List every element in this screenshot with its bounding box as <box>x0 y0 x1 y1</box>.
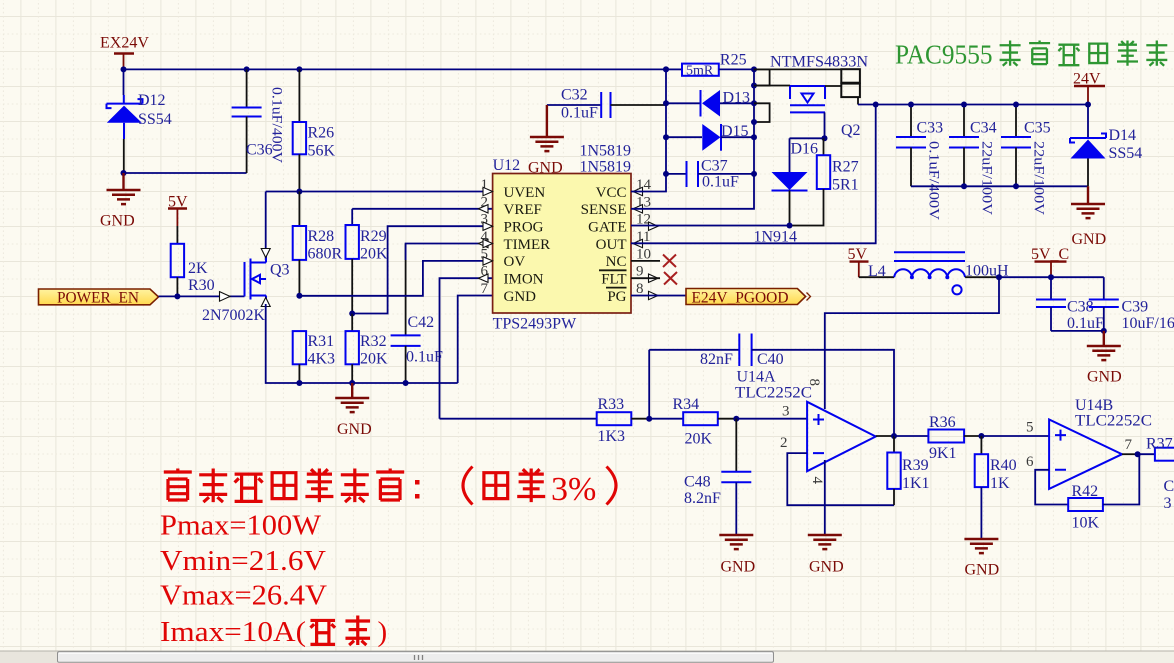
svg-text:C4: C4 <box>1164 478 1174 495</box>
svg-text:C32: C32 <box>561 87 588 104</box>
power port 5V_C <box>1031 246 1069 277</box>
node R25 right <box>751 66 757 72</box>
svg-text:10: 10 <box>636 246 651 262</box>
capacitor C38 <box>1036 277 1104 332</box>
svg-text:7: 7 <box>1125 437 1133 453</box>
svg-text:GND: GND <box>337 421 372 438</box>
svg-text:2: 2 <box>780 435 788 451</box>
svg-text:Q3: Q3 <box>270 262 290 279</box>
svg-text:4: 4 <box>809 477 825 485</box>
ground under C48 <box>719 535 755 576</box>
wire 5V_C supply to op-amp pin8 <box>825 277 999 409</box>
node POWER_EN/R30 <box>174 293 180 299</box>
svg-text:R33: R33 <box>598 396 625 413</box>
svg-text:3%: 3% <box>551 471 596 508</box>
svg-text:L4: L4 <box>868 263 886 280</box>
resistor R34 20K <box>673 396 737 448</box>
svg-text:C39: C39 <box>1122 299 1149 316</box>
node bus-C36 <box>244 66 250 72</box>
svg-text:20K: 20K <box>685 431 713 448</box>
svg-text:GND: GND <box>504 289 537 305</box>
labels 1N5819 D13 D15 values <box>580 143 632 176</box>
svg-text:2K: 2K <box>188 260 208 277</box>
node D15 left <box>663 134 669 140</box>
capacitor C37 <box>666 158 754 191</box>
svg-text:0.1uF: 0.1uF <box>1067 315 1104 332</box>
svg-text:D13: D13 <box>723 90 751 107</box>
port POWER_EN <box>39 289 159 307</box>
power port EX24V <box>100 35 149 70</box>
node C34 top <box>961 102 967 108</box>
wire 24V bus <box>124 68 667 70</box>
wire PROG pin3 <box>352 226 492 313</box>
svg-text:NTMFS4833N: NTMFS4833N <box>770 54 868 71</box>
port E24V_PGOOD <box>686 289 811 307</box>
svg-text:IMON: IMON <box>504 272 544 288</box>
wire OUT pin11 to output rail <box>631 105 876 244</box>
svg-text:C48: C48 <box>684 474 711 491</box>
wire R33 node to R34 <box>649 418 683 420</box>
U12 pin direction arrows <box>479 187 659 299</box>
node D15 right <box>751 134 757 140</box>
U12 pin numbers <box>481 177 652 297</box>
svg-text:GND: GND <box>100 213 135 230</box>
svg-text:R32: R32 <box>360 333 387 350</box>
wire PG pin8 <box>631 295 686 297</box>
svg-text:680R: 680R <box>308 246 343 263</box>
wire GND pin7 <box>458 296 493 384</box>
node C34 bottom <box>961 183 967 189</box>
svg-text:VREF: VREF <box>504 202 542 218</box>
svg-text:22uF/100V: 22uF/100V <box>979 141 995 215</box>
diode D15 1N5819 <box>666 123 754 151</box>
svg-text:C40: C40 <box>757 351 784 368</box>
capacitor C39 <box>1089 277 1174 332</box>
wire U14A output <box>876 435 894 437</box>
node output U14A <box>891 433 897 439</box>
resistor R27 5R1 <box>790 138 859 225</box>
node R36/R40/pin5 <box>978 433 984 439</box>
node C35 top <box>1013 102 1019 108</box>
green note text PAC9555 <box>895 40 1174 70</box>
resistor R42 10K <box>1068 454 1139 531</box>
wire kelvin jog top <box>754 69 770 85</box>
ground under D12 <box>100 173 141 230</box>
svg-text:TIMER: TIMER <box>504 237 551 253</box>
inductor L4 100uH <box>859 252 1009 294</box>
capacitor C42 <box>391 244 443 384</box>
svg-text:5mR: 5mR <box>686 64 714 79</box>
svg-text:GND: GND <box>721 559 756 576</box>
svg-text:TLC2252C: TLC2252C <box>735 385 812 402</box>
svg-text:): ) <box>378 616 388 648</box>
svg-text:0.1uF: 0.1uF <box>702 174 739 191</box>
svg-text:D15: D15 <box>721 123 749 140</box>
node C39 bottom <box>1101 328 1107 334</box>
resistor R36 9K1 <box>894 414 981 462</box>
node kelvin mid <box>751 119 757 125</box>
svg-text:TLC2252C: TLC2252C <box>1075 413 1152 430</box>
svg-text:PG: PG <box>607 289 626 305</box>
wire OV pin5 <box>299 261 492 296</box>
svg-text:SENSE: SENSE <box>581 202 627 218</box>
diode D12 SS54 <box>107 69 172 173</box>
diode D16 1N914 <box>754 138 819 245</box>
svg-text:4K3: 4K3 <box>308 351 336 368</box>
node C33 top <box>908 102 914 108</box>
svg-text:D14: D14 <box>1109 127 1137 144</box>
capacitor C35 <box>1001 105 1051 216</box>
wire VREF pin2 <box>352 208 492 210</box>
ground under pin4 <box>808 535 844 576</box>
node bus-R26 <box>296 66 302 72</box>
svg-text:R42: R42 <box>1072 483 1099 500</box>
node output U14B <box>1135 451 1141 457</box>
diode D14 SS54 <box>1070 105 1142 187</box>
svg-text:8: 8 <box>806 379 822 387</box>
op-amp U14A TLC2252C <box>735 369 876 485</box>
wire L4 to 5V_C <box>999 276 1104 278</box>
capacitor C40 82nF <box>649 334 894 437</box>
wire UVEN to pin1 <box>266 191 493 193</box>
resistor R40 1K <box>975 436 1017 539</box>
wire U14B pin6 feedback loop <box>1035 470 1068 505</box>
resistor R28 680R <box>293 192 343 296</box>
Q2 pad rectangles <box>841 69 860 104</box>
wire SENSE vertical <box>631 69 754 208</box>
svg-text:82nF: 82nF <box>700 351 733 368</box>
svg-text:0.1uF: 0.1uF <box>406 349 443 366</box>
svg-text:PAC9555: PAC9555 <box>895 40 993 70</box>
wire op-amp pin2 feedback <box>787 453 894 505</box>
wire GATE pin12 <box>631 225 790 227</box>
svg-text:0.1uF: 0.1uF <box>561 105 598 122</box>
svg-text:7: 7 <box>481 281 489 297</box>
svg-text:GND: GND <box>809 559 844 576</box>
input arrow on gate wire <box>220 292 231 302</box>
svg-text:C37: C37 <box>701 158 728 175</box>
svg-text:GND: GND <box>965 562 1000 579</box>
wire R25 to pass transistor <box>754 68 841 70</box>
resistor R25 5mR <box>666 52 754 79</box>
svg-text:R29: R29 <box>360 228 387 245</box>
resistor R32 20K <box>346 314 389 384</box>
svg-text:0.1uF/400V: 0.1uF/400V <box>926 141 942 220</box>
wire TIMER pin4 <box>406 244 493 261</box>
wire to op-amp pin3 <box>736 418 807 420</box>
wire caps bottom rail <box>911 185 1088 187</box>
svg-text:FLT: FLT <box>601 272 626 288</box>
wire kelvin jog mid <box>754 103 770 122</box>
node R33/R34/C40 <box>646 416 652 422</box>
ground under D14 <box>1071 186 1106 248</box>
svg-text:R28: R28 <box>308 228 335 245</box>
resistor R30 2K <box>171 244 215 297</box>
resistor R29 20K <box>346 209 389 314</box>
svg-text:OUT: OUT <box>596 237 627 253</box>
svg-text:R26: R26 <box>308 125 335 142</box>
svg-text:SS54: SS54 <box>138 111 172 128</box>
svg-text:20K: 20K <box>360 246 388 263</box>
wire Q2 gate chain <box>790 112 825 138</box>
capacitor C34 <box>949 105 997 216</box>
svg-text:TPS2493PW: TPS2493PW <box>493 316 577 333</box>
svg-text:OV: OV <box>504 254 526 270</box>
svg-text:5: 5 <box>1026 420 1034 436</box>
svg-text:R31: R31 <box>308 333 335 350</box>
node 24V rail D14 <box>1085 102 1091 108</box>
svg-text:GND: GND <box>1072 231 1107 248</box>
svg-text:NC: NC <box>606 254 627 270</box>
node R25 left <box>663 66 669 72</box>
resistor R37 (clipped) <box>1138 436 1174 461</box>
svg-text:Vmin=21.6V: Vmin=21.6V <box>160 545 326 577</box>
svg-text:10K: 10K <box>1072 515 1100 532</box>
svg-text:10uF/16: 10uF/16 <box>1122 315 1174 332</box>
node C35 bottom <box>1013 183 1019 189</box>
node rail OUT <box>873 102 879 108</box>
ground under C39 <box>1087 331 1122 386</box>
node OV/R28/R31 <box>296 293 302 299</box>
svg-text:GND: GND <box>528 160 563 177</box>
wire IMON sense row to R33 <box>440 418 597 420</box>
svg-text:1N5819: 1N5819 <box>580 159 632 176</box>
ground under C32 <box>528 105 564 177</box>
resistor R39 1K1 <box>887 436 929 505</box>
transistor Q2 NTMFS4833N <box>754 54 868 140</box>
svg-text:U14B: U14B <box>1075 397 1113 414</box>
node kelvin top <box>751 83 757 89</box>
svg-text:9K1: 9K1 <box>929 445 957 462</box>
svg-text:U14A: U14A <box>737 369 777 386</box>
node R31 bottom <box>296 380 302 386</box>
U12 active-low overlines FLT PG <box>599 270 627 287</box>
svg-text:3: 3 <box>1164 495 1172 512</box>
wire VCC vertical <box>631 69 666 191</box>
svg-text:EX24V: EX24V <box>100 35 149 52</box>
resistor R26 56K <box>293 69 336 191</box>
svg-text:R30: R30 <box>188 277 215 294</box>
svg-text:PROG: PROG <box>504 220 544 236</box>
resistor R31 4K3 <box>293 331 335 383</box>
svg-text:U12: U12 <box>493 157 521 174</box>
svg-text:Q2: Q2 <box>841 122 861 139</box>
wire to U14B pin5 <box>981 435 1049 437</box>
node C42 bottom <box>403 380 409 386</box>
svg-text:D16: D16 <box>791 141 819 158</box>
svg-text:1K: 1K <box>990 475 1010 492</box>
junction D12 bottom <box>121 170 127 176</box>
node R32 bottom <box>349 380 355 386</box>
svg-text:8.2nF: 8.2nF <box>684 490 721 507</box>
transistor Q3 2N7002K <box>202 249 290 325</box>
svg-text:3: 3 <box>782 404 790 420</box>
pin9 FLT stub and no-connect cross <box>631 272 677 285</box>
svg-text:Pmax=100W: Pmax=100W <box>160 510 322 542</box>
svg-text:E24V_PGOOD: E24V_PGOOD <box>692 290 789 307</box>
svg-text:1K3: 1K3 <box>598 428 626 445</box>
capacitor C48 8.2nF <box>684 419 751 535</box>
diode D13 1N5819 <box>666 90 754 117</box>
node L4 out <box>996 274 1002 280</box>
svg-text:C33: C33 <box>917 120 944 137</box>
power port 5V (R30 pullup) <box>168 194 188 244</box>
labels clipped right edge C4x <box>1164 478 1174 512</box>
svg-text:GATE: GATE <box>588 220 626 236</box>
svg-text:20K: 20K <box>360 351 388 368</box>
ground main rail <box>335 383 371 438</box>
svg-text:R27: R27 <box>832 159 859 176</box>
svg-text:R37: R37 <box>1146 436 1173 453</box>
svg-text:22uF/100V: 22uF/100V <box>1031 141 1047 215</box>
svg-text:C35: C35 <box>1024 120 1051 137</box>
svg-text:SS54: SS54 <box>1109 145 1143 162</box>
svg-text:R34: R34 <box>673 396 700 413</box>
wire Q3 source to ground rail <box>266 304 458 383</box>
svg-text:D12: D12 <box>138 92 166 109</box>
op-amp U14B TLC2252C <box>1026 397 1152 489</box>
svg-text:2N7002K: 2N7002K <box>202 307 265 324</box>
power port 24V <box>1073 71 1105 105</box>
node R34/C48/pin3 <box>733 416 739 422</box>
node bus-VCC <box>663 66 669 72</box>
node C37 left <box>663 171 669 177</box>
svg-text:R25: R25 <box>720 52 747 69</box>
capacitor C36 <box>232 69 285 173</box>
svg-text:R39: R39 <box>902 457 929 474</box>
svg-text:R40: R40 <box>990 457 1017 474</box>
svg-text:6: 6 <box>1026 454 1034 470</box>
wire POWER_EN to Q3 gate <box>159 295 245 297</box>
svg-text:POWER_EN: POWER_EN <box>57 290 139 307</box>
node D13 left <box>663 100 669 106</box>
node PROG/R29/R32 <box>349 311 355 317</box>
svg-text:0.1uF/400V: 0.1uF/400V <box>269 87 285 163</box>
svg-text:5R1: 5R1 <box>832 177 859 194</box>
node GATE row <box>787 223 793 229</box>
svg-text:Vmax=26.4V: Vmax=26.4V <box>160 580 327 612</box>
node 5V_C <box>1048 274 1054 280</box>
node C37 right <box>751 171 757 177</box>
resistor R33 1K3 <box>597 396 650 445</box>
svg-text:GND: GND <box>1087 369 1122 386</box>
red annotation line1 <box>164 467 616 509</box>
node gate/D16/R27 <box>822 135 828 141</box>
ground under R40 <box>964 539 999 579</box>
wire output rail 24V <box>858 104 1088 106</box>
svg-text:UVEN: UVEN <box>504 185 546 201</box>
svg-text:1K1: 1K1 <box>902 475 930 492</box>
red annotation line5 <box>160 616 387 649</box>
U12 pin names <box>504 185 627 305</box>
svg-text:1N5819: 1N5819 <box>580 143 632 160</box>
wire U14B output <box>1122 453 1138 455</box>
IC U12 TPS2493PW body <box>493 157 631 333</box>
node UVEN <box>296 189 302 195</box>
wire op-amp pin4 to ground <box>824 460 826 535</box>
capacitor C33 <box>896 105 943 221</box>
svg-text:R36: R36 <box>929 414 956 431</box>
wire UVEN left rail down to Q3 drain <box>265 192 267 261</box>
capacitor C32 <box>547 87 666 122</box>
scrollbar area <box>0 651 1174 663</box>
wire D12-C36 bottom <box>124 172 247 174</box>
node D13 right <box>751 100 757 106</box>
svg-text:C34: C34 <box>970 120 997 137</box>
pin10 NC stub and no-connect cross <box>631 255 676 268</box>
power port 5V (L4) <box>848 246 869 277</box>
wire IMON pin6 <box>440 278 493 419</box>
node bus-EX24V <box>121 66 127 72</box>
svg-text:C42: C42 <box>408 314 435 331</box>
svg-text:VCC: VCC <box>596 185 627 201</box>
svg-text:Imax=10A(: Imax=10A( <box>160 616 306 648</box>
svg-text:56K: 56K <box>308 143 336 160</box>
